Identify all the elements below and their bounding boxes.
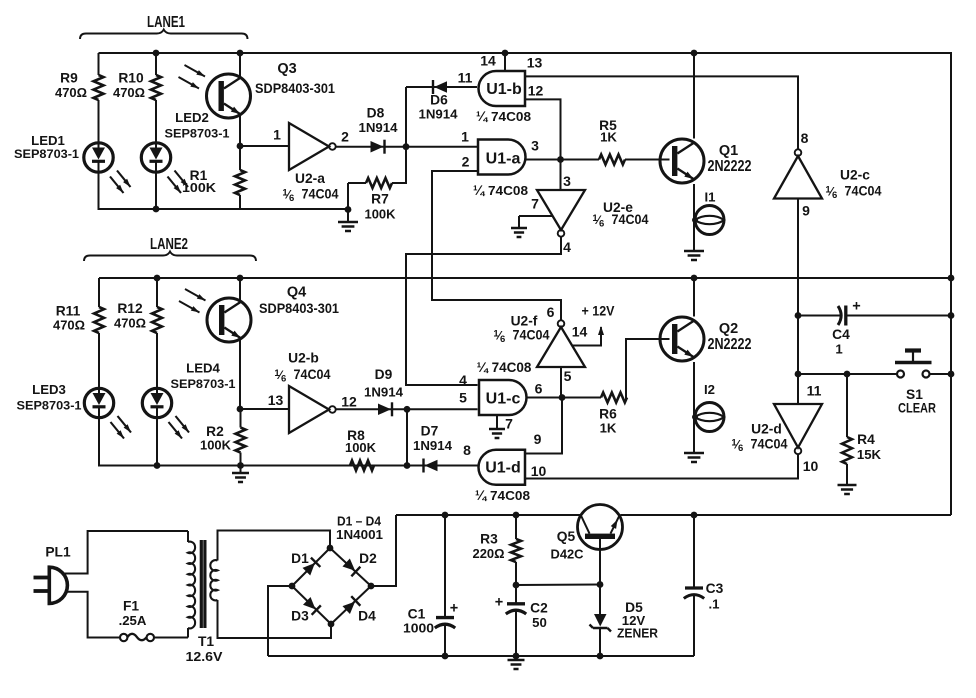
svg-text:4: 4 <box>563 239 571 255</box>
svg-text:PL1: PL1 <box>45 545 71 560</box>
svg-text:R9: R9 <box>60 71 78 86</box>
svg-text:6: 6 <box>738 443 743 454</box>
svg-text:D3: D3 <box>291 609 309 624</box>
svg-text:+: + <box>495 595 503 611</box>
svg-text:11: 11 <box>458 70 473 86</box>
svg-text:3: 3 <box>531 138 539 154</box>
svg-text:D42C: D42C <box>551 547 584 562</box>
svg-text:2: 2 <box>341 129 349 145</box>
svg-text:C3: C3 <box>706 581 724 596</box>
svg-text:D9: D9 <box>375 367 393 382</box>
svg-text:74C04: 74C04 <box>751 437 788 452</box>
svg-text:¼ 74C08: ¼ 74C08 <box>477 360 532 375</box>
svg-text:ZENER: ZENER <box>617 626 658 641</box>
svg-text:Q3: Q3 <box>277 61 296 77</box>
svg-text:Q2: Q2 <box>719 321 738 337</box>
svg-text:74C08: 74C08 <box>491 109 531 124</box>
svg-text:D7: D7 <box>421 424 439 439</box>
svg-text:7: 7 <box>505 416 513 432</box>
svg-text:74C08: 74C08 <box>490 488 530 503</box>
svg-text:U2-a: U2-a <box>295 171 325 186</box>
svg-text:SEP8703-1: SEP8703-1 <box>17 399 82 413</box>
svg-text:1N914: 1N914 <box>413 438 453 453</box>
svg-text:1N914: 1N914 <box>419 107 459 122</box>
svg-text:14: 14 <box>480 53 496 69</box>
svg-text:470Ω: 470Ω <box>55 85 87 100</box>
svg-text:13: 13 <box>268 392 284 408</box>
svg-text:12.6V: 12.6V <box>186 649 223 664</box>
svg-text:R10: R10 <box>118 71 144 86</box>
svg-text:12: 12 <box>341 394 357 410</box>
svg-text:5: 5 <box>564 368 572 384</box>
svg-text:U1-b: U1-b <box>486 81 522 98</box>
svg-text:1: 1 <box>835 342 842 357</box>
svg-text:T1: T1 <box>198 634 214 649</box>
svg-text:D6: D6 <box>430 93 448 108</box>
svg-text:¼: ¼ <box>475 488 488 503</box>
svg-text:C2: C2 <box>530 601 548 616</box>
svg-text:6: 6 <box>535 381 543 397</box>
svg-text:U2-c: U2-c <box>840 168 870 183</box>
svg-text:6: 6 <box>599 219 604 230</box>
svg-text:5: 5 <box>459 390 467 406</box>
svg-text:10: 10 <box>531 463 547 479</box>
svg-text:U2-b: U2-b <box>288 351 319 366</box>
svg-text:1K: 1K <box>600 421 617 436</box>
svg-text:9: 9 <box>802 203 810 219</box>
svg-text:R11: R11 <box>56 304 81 319</box>
svg-text:LANE1: LANE1 <box>147 14 185 31</box>
svg-text:10: 10 <box>803 458 819 474</box>
svg-text:I1: I1 <box>705 190 716 205</box>
svg-text:D4: D4 <box>358 609 376 624</box>
svg-text:6: 6 <box>832 190 837 201</box>
svg-text:LED2: LED2 <box>175 110 209 125</box>
svg-text:R6: R6 <box>599 407 617 422</box>
svg-text:+: + <box>852 299 860 315</box>
svg-text:LED1: LED1 <box>31 133 65 148</box>
svg-text:100K: 100K <box>182 180 217 195</box>
svg-text:2N2222: 2N2222 <box>708 336 752 353</box>
svg-text:1N4001: 1N4001 <box>336 527 383 542</box>
svg-text:6: 6 <box>289 193 294 204</box>
svg-text:6: 6 <box>547 304 555 320</box>
svg-text:LED3: LED3 <box>32 382 66 397</box>
svg-text:LED4: LED4 <box>186 361 220 376</box>
svg-text:14: 14 <box>572 324 588 340</box>
svg-text:2N2222: 2N2222 <box>708 158 752 175</box>
svg-text:11: 11 <box>807 383 822 399</box>
svg-text:¼: ¼ <box>476 109 489 124</box>
svg-text:D8: D8 <box>367 106 385 121</box>
svg-text:R3: R3 <box>480 532 498 547</box>
svg-text:SDP8403-301: SDP8403-301 <box>259 301 339 316</box>
svg-text:470Ω: 470Ω <box>113 85 145 100</box>
svg-text:SEP8703-1: SEP8703-1 <box>171 377 236 391</box>
svg-text:Q5: Q5 <box>557 529 576 544</box>
svg-text:12: 12 <box>528 83 544 99</box>
svg-text:U1-a: U1-a <box>486 151 521 168</box>
svg-text:470Ω: 470Ω <box>114 316 146 331</box>
svg-text:¼: ¼ <box>473 183 486 198</box>
svg-text:F1: F1 <box>123 599 139 614</box>
svg-text:1N914: 1N914 <box>359 120 399 135</box>
svg-text:U2-d: U2-d <box>751 422 782 437</box>
svg-text:LANE2: LANE2 <box>150 236 188 253</box>
svg-text:7: 7 <box>531 196 539 212</box>
svg-text:8: 8 <box>801 130 809 146</box>
svg-text:D2: D2 <box>359 551 377 566</box>
svg-text:SDP8403-301: SDP8403-301 <box>255 81 335 96</box>
svg-text:.1: .1 <box>709 597 720 612</box>
svg-text:I2: I2 <box>704 382 715 397</box>
svg-text:100K: 100K <box>365 207 396 222</box>
svg-text:R7: R7 <box>371 192 389 207</box>
svg-text:6: 6 <box>281 374 286 385</box>
svg-text:3: 3 <box>563 173 571 189</box>
svg-text:4: 4 <box>459 372 467 388</box>
svg-text:SEP8703-1: SEP8703-1 <box>165 127 230 141</box>
svg-text:1K: 1K <box>600 130 617 145</box>
svg-text:D1: D1 <box>291 551 309 566</box>
svg-text:SEP8703-1: SEP8703-1 <box>14 147 79 161</box>
svg-text:R4: R4 <box>857 432 875 447</box>
svg-text:15K: 15K <box>857 447 882 462</box>
svg-text:50: 50 <box>532 615 547 630</box>
svg-text:470Ω: 470Ω <box>53 318 85 333</box>
svg-text:74C08: 74C08 <box>488 183 528 198</box>
svg-text:13: 13 <box>527 55 543 71</box>
svg-text:U1-c: U1-c <box>486 391 521 408</box>
svg-text:100K: 100K <box>345 440 376 455</box>
svg-text:1: 1 <box>461 129 469 145</box>
svg-text:R12: R12 <box>117 301 143 316</box>
svg-text:9: 9 <box>534 431 542 447</box>
svg-text:.25A: .25A <box>119 613 147 628</box>
svg-text:74C04: 74C04 <box>845 184 882 199</box>
svg-text:+: + <box>450 601 458 617</box>
svg-text:C4: C4 <box>832 327 850 342</box>
svg-text:6: 6 <box>500 334 505 345</box>
svg-text:74C04: 74C04 <box>294 367 331 382</box>
svg-text:1: 1 <box>273 127 281 143</box>
svg-text:1N914: 1N914 <box>364 385 404 400</box>
svg-text:Q4: Q4 <box>287 285 306 301</box>
svg-text:74C04: 74C04 <box>513 328 550 343</box>
svg-text:220Ω: 220Ω <box>473 546 505 561</box>
svg-text:CLEAR: CLEAR <box>898 400 936 416</box>
svg-text:U1-d: U1-d <box>485 460 521 477</box>
svg-text:U2-f: U2-f <box>511 314 538 329</box>
svg-text:74C04: 74C04 <box>302 187 339 202</box>
svg-text:74C04: 74C04 <box>612 212 649 227</box>
svg-text:100K: 100K <box>200 438 231 453</box>
svg-text:1000: 1000 <box>403 621 434 636</box>
svg-text:+ 12V: + 12V <box>582 304 616 319</box>
svg-text:C1: C1 <box>408 607 426 622</box>
svg-text:8: 8 <box>463 442 471 458</box>
svg-text:2: 2 <box>462 154 470 170</box>
svg-text:Q1: Q1 <box>719 143 738 159</box>
